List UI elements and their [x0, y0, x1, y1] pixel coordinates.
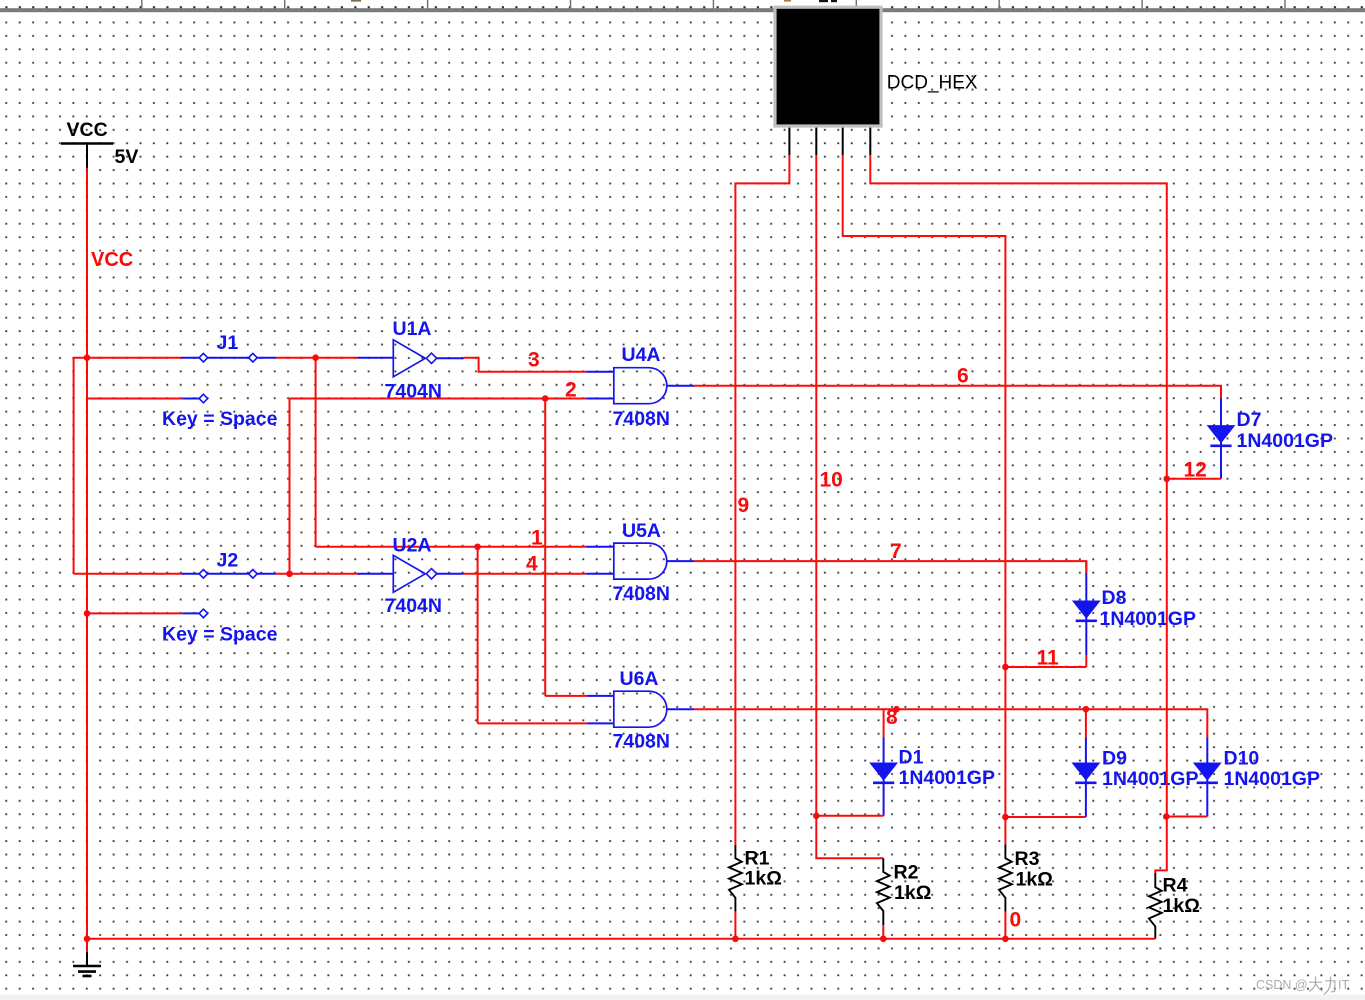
U6A label	[620, 668, 659, 690]
svg-text:9: 9	[738, 494, 750, 517]
net 1 label	[531, 527, 543, 550]
svg-text:Key = Space: Key = Space	[162, 408, 278, 430]
U2A 7404N label	[385, 595, 442, 617]
wire net1 to U6A bottom input	[478, 722, 614, 724]
svg-text:U5A: U5A	[622, 520, 661, 542]
R1 label	[745, 848, 770, 870]
svg-text:6: 6	[957, 365, 969, 388]
J1 label	[217, 332, 239, 354]
svg-text:R2: R2	[894, 862, 919, 884]
wire net4 blue stub	[586, 573, 614, 575]
svg-text:U4A: U4A	[622, 344, 661, 366]
terminal J1 lower throw	[182, 394, 207, 403]
svg-text:1kΩ: 1kΩ	[745, 868, 782, 890]
net 12 label	[1184, 459, 1207, 482]
ground	[73, 939, 101, 976]
R4 value label	[1163, 895, 1200, 917]
svg-text:D1: D1	[899, 747, 924, 769]
wire U1A output stub	[437, 357, 464, 359]
wire U6A output stub	[667, 708, 694, 710]
wire net8	[694, 709, 1207, 737]
svg-text:D10: D10	[1224, 748, 1260, 770]
junction R2/bus	[880, 936, 887, 943]
svg-text:D7: D7	[1237, 409, 1262, 431]
top gray bar	[0, 8, 1365, 12]
wire net3 blue stub	[586, 371, 614, 373]
junction net8 b	[1083, 706, 1090, 713]
switch J2	[181, 570, 275, 579]
svg-text:7408N: 7408N	[613, 583, 670, 605]
svg-text:0: 0	[1010, 909, 1022, 932]
junction net1 tap	[312, 354, 319, 361]
net 8 label	[886, 706, 898, 729]
resistor R1	[729, 845, 742, 912]
wire left drop J1-J2	[73, 358, 75, 574]
junction D9/pin3 net	[1002, 814, 1009, 821]
wire J2 feed	[74, 573, 182, 575]
svg-text:CSDN @: CSDN @	[1256, 978, 1308, 992]
resistor R2	[877, 858, 890, 925]
top ruler separators	[142, 0, 1285, 9]
seven-segment display U3 frame	[773, 6, 882, 128]
R1 value label	[745, 868, 782, 890]
svg-text:7408N: 7408N	[613, 408, 670, 430]
wire D1 bottom	[816, 815, 883, 817]
diode D7	[1208, 398, 1235, 478]
wire net1 drop to U6A	[477, 547, 479, 724]
R2 value label	[894, 882, 931, 904]
junction net8 a	[893, 706, 900, 713]
terminal J2 lower throw	[182, 609, 207, 618]
svg-text:DCD_HEX: DCD_HEX	[887, 72, 978, 93]
D10 label	[1224, 748, 1260, 770]
svg-text:1N4001GP: 1N4001GP	[1237, 430, 1333, 452]
net 3 label	[528, 349, 540, 372]
wire U2A input stub	[357, 573, 393, 575]
svg-text:1kΩ: 1kΩ	[894, 882, 931, 904]
wire J2 lower throw	[87, 612, 182, 614]
wire ground bus	[87, 938, 1155, 940]
svg-text:R4: R4	[1163, 875, 1188, 897]
wire net11	[1005, 666, 1086, 668]
wire net2 to U6A top input	[545, 695, 614, 697]
U5A label	[622, 520, 661, 542]
svg-text:11: 11	[1037, 647, 1060, 670]
svg-text:U1A: U1A	[393, 318, 432, 340]
svg-text:Key = Space: Key = Space	[162, 624, 278, 646]
svg-text:J2: J2	[217, 550, 239, 572]
wire U1A input stub	[357, 357, 393, 359]
wire net1 horizontal	[316, 546, 587, 548]
bottom status strip	[0, 995, 1365, 1000]
wire net2 blue stub U4A	[586, 398, 614, 400]
VCC power symbol	[61, 144, 113, 169]
display pin 1	[788, 128, 790, 155]
junction net1/U6A tap	[474, 544, 481, 551]
D8 1N4001GP label	[1100, 608, 1196, 630]
AND gate U4A	[614, 368, 667, 404]
wire net1 blue stub U5A	[586, 546, 614, 548]
net 2 label	[565, 379, 577, 402]
R2 label	[894, 862, 919, 884]
diode D1	[870, 709, 897, 816]
svg-text:IT: IT	[1338, 978, 1349, 992]
net 4 label	[526, 553, 538, 576]
wire J1 to U1A	[276, 357, 358, 359]
DCD_HEX label	[887, 72, 978, 93]
D10 1N4001GP label	[1224, 768, 1320, 790]
svg-text:1kΩ: 1kΩ	[1016, 869, 1053, 891]
VCC label	[67, 119, 108, 141]
resistor R4	[1149, 873, 1162, 939]
wire U5A output stub	[667, 560, 694, 562]
svg-text:R3: R3	[1015, 848, 1040, 870]
U1A 7404N label	[385, 381, 442, 403]
svg-text:D8: D8	[1102, 587, 1127, 609]
inverter U2A	[393, 555, 436, 592]
display pin 2	[815, 128, 817, 155]
svg-text:VCC: VCC	[91, 249, 133, 271]
wire net9 pin1	[735, 155, 789, 845]
D1 1N4001GP label	[899, 767, 995, 789]
U6A 7408N label	[613, 731, 670, 753]
5V value label	[115, 146, 139, 168]
junction D1/net10	[813, 813, 820, 820]
J2 label	[217, 550, 239, 572]
net 6 label	[957, 365, 969, 388]
U2A label	[393, 535, 432, 557]
svg-text:1N4001GP: 1N4001GP	[899, 767, 995, 789]
wire J2 to U2A	[276, 573, 358, 575]
resistor R3	[999, 844, 1012, 911]
wire net6	[694, 386, 1221, 399]
Key = Space label J2	[162, 624, 278, 646]
svg-text:J1: J1	[217, 332, 239, 354]
D7 label	[1237, 409, 1262, 431]
D9 1N4001GP label	[1102, 768, 1198, 790]
net VCC label	[91, 249, 133, 271]
wire net2 drop to J2 row	[289, 399, 291, 574]
svg-text:VCC: VCC	[67, 119, 108, 141]
svg-text:8: 8	[886, 706, 898, 729]
D1 label	[899, 747, 924, 769]
svg-text:1: 1	[531, 527, 543, 550]
junction R1/bus	[732, 936, 739, 943]
svg-text:5V: 5V	[115, 146, 139, 168]
diode D10	[1194, 738, 1221, 817]
U1A label	[393, 318, 432, 340]
Key = Space label J1	[162, 408, 278, 430]
junction D10/pin4 net	[1163, 813, 1170, 820]
wire R3 bottom	[1004, 912, 1006, 939]
net 7 label	[890, 540, 902, 563]
wire D9 bottom	[1005, 816, 1086, 818]
seven-segment display U3 body	[777, 9, 880, 125]
net 9 label	[738, 494, 750, 517]
wire net7	[694, 561, 1086, 573]
wire net12	[1167, 478, 1221, 480]
U4A label	[622, 344, 661, 366]
wire net2 horizontal	[290, 398, 587, 400]
junction net2/J2	[286, 571, 293, 578]
wire J1 lower throw	[87, 398, 182, 400]
R3 label	[1015, 848, 1040, 870]
inverter U1A	[393, 340, 436, 377]
svg-text:12: 12	[1184, 459, 1207, 482]
wire U4A output stub	[667, 385, 694, 387]
wire net2 drop to U6A	[544, 399, 546, 696]
svg-text:1N4001GP: 1N4001GP	[1100, 608, 1196, 630]
svg-text:D9: D9	[1102, 748, 1127, 770]
svg-text:7404N: 7404N	[385, 595, 442, 617]
wire net3	[464, 358, 586, 372]
D7 1N4001GP label	[1237, 430, 1333, 452]
svg-text:U6A: U6A	[620, 668, 659, 690]
switch J1	[181, 353, 275, 362]
svg-text:U2A: U2A	[393, 535, 432, 557]
R3 value label	[1016, 869, 1053, 891]
diode D9	[1073, 709, 1100, 817]
wire R2 bottom	[882, 925, 884, 939]
svg-text:1N4001GP: 1N4001GP	[1224, 768, 1320, 790]
svg-text:7408N: 7408N	[613, 731, 670, 753]
junction net2/U6A tap	[542, 395, 549, 402]
diode D8	[1073, 561, 1100, 667]
wire J1 feed	[74, 357, 182, 359]
svg-text:7: 7	[890, 540, 902, 563]
U5A 7408N label	[613, 583, 670, 605]
top clipped glyphs	[351, 0, 837, 2]
net 0 label	[1010, 909, 1022, 932]
D9 label	[1102, 748, 1127, 770]
junction J2 throw/VCC rail	[84, 610, 91, 617]
D8 label	[1102, 587, 1127, 609]
wire pin4 net	[870, 155, 1167, 873]
junction ground/VCC rail	[84, 936, 91, 943]
svg-text:1N4001GP: 1N4001GP	[1102, 768, 1198, 790]
wire net10 pin2	[816, 155, 883, 858]
display pin 3	[842, 128, 844, 155]
watermark	[1256, 977, 1349, 995]
junction net11	[1002, 664, 1009, 671]
junction J1/VCC	[84, 354, 91, 361]
R4 label	[1163, 875, 1188, 897]
svg-text:1kΩ: 1kΩ	[1163, 895, 1200, 917]
wire net4	[464, 573, 586, 575]
svg-text:10: 10	[820, 469, 843, 492]
net 11 label	[1037, 647, 1060, 670]
svg-text:3: 3	[528, 349, 540, 372]
svg-text:2: 2	[565, 379, 577, 402]
svg-text:4: 4	[526, 553, 538, 576]
top ruler tick row	[0, 0, 1365, 9]
AND gate U5A	[614, 543, 667, 579]
wire U2A output stub	[437, 573, 464, 575]
junction R3/bus	[1002, 936, 1009, 943]
wire pin3 net	[843, 155, 1006, 844]
wire VCC rail vertical	[86, 168, 88, 939]
wire D10 bottom	[1166, 816, 1207, 818]
display pin 4	[869, 128, 871, 155]
wire net1 drop	[315, 358, 317, 547]
svg-text:R1: R1	[745, 848, 770, 870]
wire R1 bottom	[734, 912, 736, 939]
net 10 label	[820, 469, 843, 492]
U4A 7408N label	[613, 408, 670, 430]
AND gate U6A	[614, 691, 667, 727]
junction net12	[1164, 476, 1171, 483]
